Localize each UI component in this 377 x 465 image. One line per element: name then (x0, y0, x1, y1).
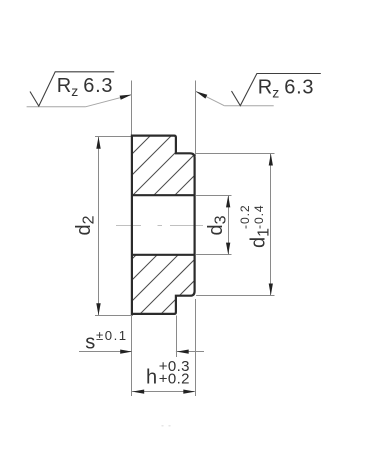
svg-text:s: s (85, 331, 95, 353)
svg-text:-0.4: -0.4 (252, 204, 266, 229)
svg-text:h: h (146, 367, 157, 389)
svg-text:±0.1: ±0.1 (96, 328, 128, 343)
svg-text:+0.2: +0.2 (159, 371, 190, 388)
svg-text:-0.2: -0.2 (238, 204, 252, 229)
svg-text:Rz6.3: Rz6.3 (258, 77, 314, 101)
svg-text:Rz6.3: Rz6.3 (57, 75, 113, 99)
